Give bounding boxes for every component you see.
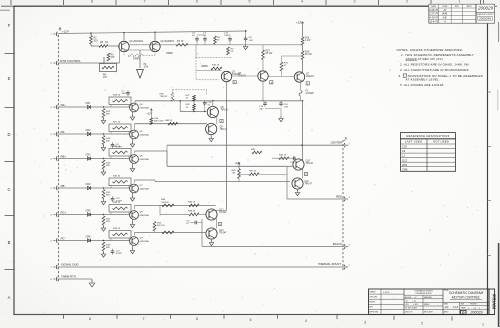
svg-text:CR1: CR1 [86, 102, 91, 105]
svg-text:1K: 1K [105, 41, 108, 44]
svg-text:2: 2 [421, 321, 423, 325]
svg-text:TITLE: TITLE [444, 290, 448, 292]
svg-text:F: F [8, 23, 11, 28]
svg-text:ENGRG: ENGRG [369, 302, 376, 304]
svg-text:2N2222A: 2N2222A [139, 106, 150, 109]
svg-text:8: 8 [89, 317, 91, 321]
svg-text:R45 10: R45 10 [188, 200, 196, 203]
svg-text:B: B [8, 240, 11, 245]
svg-text:TIP147: TIP147 [219, 232, 227, 235]
svg-text:R15: R15 [266, 51, 271, 53]
svg-text:5: 5 [250, 318, 252, 322]
svg-text:2K: 2K [216, 40, 220, 42]
svg-text:R40 2K: R40 2K [165, 119, 173, 122]
svg-text:MOTOR CONTROL: MOTOR CONTROL [452, 295, 481, 299]
svg-text:R18: R18 [305, 52, 310, 54]
svg-text:PA-: PA- [61, 130, 66, 134]
svg-text:OPEN: OPEN [201, 65, 208, 68]
svg-text:SIGNAL GND: SIGNAL GND [61, 262, 79, 266]
svg-text:2N2222A: 2N2222A [139, 187, 150, 190]
svg-text:CR3: CR3 [86, 154, 91, 157]
svg-text:CR2: CR2 [86, 129, 91, 132]
svg-text:R24 10: R24 10 [113, 94, 121, 97]
svg-text:620 1W: 620 1W [157, 225, 165, 227]
svg-text:R33 10: R33 10 [113, 176, 121, 178]
svg-text:THRM RTN: THRM RTN [61, 274, 77, 278]
svg-text:ZONE: ZONE [442, 6, 448, 8]
svg-text:.01: .01 [207, 104, 210, 106]
svg-text:REFERENCE DESIGNATIONS: REFERENCE DESIGNATIONS [406, 134, 449, 138]
svg-text:8-30-79: 8-30-79 [429, 17, 438, 20]
svg-text:2N2222A: 2N2222A [139, 214, 150, 217]
svg-text:4.: 4. [399, 74, 402, 78]
svg-text:E: E [8, 76, 11, 81]
svg-text:3: 3 [364, 320, 366, 324]
svg-text:OTHERWISE NOTED: OTHERWISE NOTED [415, 293, 432, 295]
svg-text:A: A [8, 295, 11, 300]
svg-text:L2: L2 [402, 154, 405, 158]
svg-text:CR5: CR5 [86, 210, 91, 213]
svg-text:Q13: Q13 [219, 230, 224, 232]
svg-text:+12V: +12V [296, 20, 302, 24]
svg-text:10-4-79: 10-4-79 [429, 20, 438, 23]
svg-text:CR4: CR4 [86, 183, 91, 186]
svg-text:+12V: +12V [62, 30, 70, 34]
svg-text:PRIAM: PRIAM [491, 294, 496, 309]
svg-text:FINISH: FINISH [424, 304, 430, 306]
svg-text:1/2AMP: 1/2AMP [306, 92, 315, 95]
svg-text:R7 1K: R7 1K [177, 41, 184, 43]
svg-text:D: D [7, 132, 10, 137]
svg-text:2N2222A: 2N2222A [139, 240, 150, 243]
svg-text:6: 6 [196, 317, 198, 321]
svg-text:CENTER: CENTER [331, 141, 343, 145]
svg-text:2N2222A: 2N2222A [139, 158, 150, 161]
svg-text:200029A: 200029A [478, 17, 491, 21]
svg-text:TIP147: TIP147 [305, 183, 313, 186]
svg-text:7-2-8: 7-2-8 [453, 306, 459, 309]
svg-text:NOTES: UNLESS OTHERWISE SPECIF: NOTES: UNLESS OTHERWISE SPECIFIED, [397, 48, 464, 52]
svg-text:2. ALL RESISTORS ARE IN OHMS,: 2. ALL RESISTORS ARE IN OHMS, 1/4W, 5%, [399, 63, 470, 67]
svg-text:TIP142: TIP142 [306, 162, 314, 165]
svg-text:± 1°: ± 1° [414, 297, 417, 299]
svg-text:USED ON: USED ON [405, 311, 413, 313]
svg-text:R53: R53 [402, 163, 407, 167]
svg-text:R10 1K: R10 1K [212, 65, 220, 67]
svg-text:R30 10: R30 10 [113, 146, 121, 148]
svg-text:PB+: PB+ [61, 154, 67, 158]
svg-text:TIP142: TIP142 [219, 211, 227, 214]
svg-text:1 1W: 1 1W [305, 40, 311, 42]
svg-text:R36 10: R36 10 [113, 202, 121, 204]
svg-text:4: 4 [305, 319, 307, 323]
svg-text:1/2A: 1/2A [144, 66, 149, 69]
svg-text:Q1 2N2222A: Q1 2N2222A [130, 40, 144, 43]
svg-text:D: D [462, 311, 465, 315]
svg-text:A/B: A/B [442, 17, 447, 20]
svg-text:CHECKED: CHECKED [369, 296, 378, 298]
svg-text:BLACK: BLACK [333, 242, 342, 246]
svg-text:1: 1 [482, 323, 484, 327]
svg-text:PC+: PC+ [61, 210, 67, 214]
svg-text:± .005: ± .005 [413, 304, 418, 306]
svg-text:SIZE: SIZE [461, 304, 464, 306]
svg-text:NOT USED: NOT USED [433, 140, 449, 144]
svg-text:68 1W: 68 1W [266, 53, 273, 55]
svg-text:68 1W: 68 1W [305, 54, 312, 56]
svg-text:DATE: DATE [431, 5, 437, 8]
svg-text:33PF: 33PF [122, 93, 128, 95]
svg-text:PB-: PB- [61, 184, 66, 188]
svg-text:.01: .01 [186, 223, 189, 225]
svg-text:R47 15: R47 15 [249, 169, 257, 172]
svg-text:RED: RED [336, 194, 342, 198]
svg-text:Q13: Q13 [402, 158, 408, 162]
svg-text:TIP142: TIP142 [221, 109, 229, 112]
svg-text:R27 10: R27 10 [113, 122, 121, 124]
svg-text:± .01: ± .01 [412, 300, 416, 302]
svg-text:750/1W: 750/1W [161, 202, 169, 204]
svg-text:C: C [7, 187, 10, 192]
svg-text:2N2222A: 2N2222A [139, 133, 150, 136]
svg-text:510: 510 [94, 39, 99, 42]
svg-text:PC-: PC- [61, 236, 66, 240]
svg-text:+12V: +12V [235, 162, 241, 165]
svg-text:R49 10: R49 10 [188, 210, 196, 213]
svg-text:F4: F4 [402, 149, 406, 153]
svg-text:100PF: 100PF [224, 35, 231, 37]
svg-text:470PF: 470PF [116, 252, 123, 255]
svg-text:200029: 200029 [477, 6, 494, 11]
svg-text:2N4921: 2N4921 [305, 75, 315, 78]
svg-text:(A/R): (A/R) [442, 13, 448, 16]
svg-text:THERMAL SHUNT: THERMAL SHUNT [318, 262, 342, 266]
svg-text:6-26-79: 6-26-79 [429, 9, 438, 12]
svg-text:APPD: APPD [467, 5, 473, 8]
svg-text:C18: C18 [402, 145, 407, 149]
svg-text:7: 7 [143, 317, 145, 321]
svg-text:R16: R16 [305, 38, 310, 40]
svg-text:200029: 200029 [470, 311, 483, 315]
svg-text:J.FOX: J.FOX [383, 292, 390, 294]
svg-text:OPEN: OPEN [133, 58, 140, 61]
svg-text:750/1W: 750/1W [160, 96, 168, 98]
svg-text:SHEET: SHEET [461, 308, 466, 310]
svg-text:Q10: Q10 [306, 161, 311, 163]
svg-text:R39 10: R39 10 [113, 228, 121, 230]
svg-text:FSCM NO.: FSCM NO. [470, 304, 478, 306]
svg-text:CR6: CR6 [86, 236, 91, 239]
svg-text:JLF: JLF [445, 306, 450, 309]
svg-text:LAST USED: LAST USED [405, 140, 422, 144]
svg-text:Q2 2N2907A: Q2 2N2907A [161, 40, 175, 43]
svg-text:3. ALL CAPACITORS ARE IN MICRO: 3. ALL CAPACITORS ARE IN MICROFARADS. [400, 68, 470, 72]
svg-text:Q11: Q11 [305, 181, 310, 183]
svg-text:PA+: PA+ [61, 103, 67, 107]
svg-text:680 1/2W: 680 1/2W [154, 120, 164, 122]
svg-text:AT ASSEMBLY LEVEL.: AT ASSEMBLY LEVEL. [405, 77, 440, 81]
svg-text:CR6: CR6 [402, 167, 408, 171]
svg-text:OPEN: OPEN [166, 52, 173, 55]
svg-text:R41 10: R41 10 [279, 154, 287, 157]
svg-text:2-27-79: 2-27-79 [428, 13, 438, 16]
svg-text:5. ALL DIODES ARE 1N4148.: 5. ALL DIODES ARE 1N4148. [400, 83, 444, 87]
svg-text:SCHEMATIC DIAGRAM: SCHEMATIC DIAGRAM [449, 291, 484, 295]
